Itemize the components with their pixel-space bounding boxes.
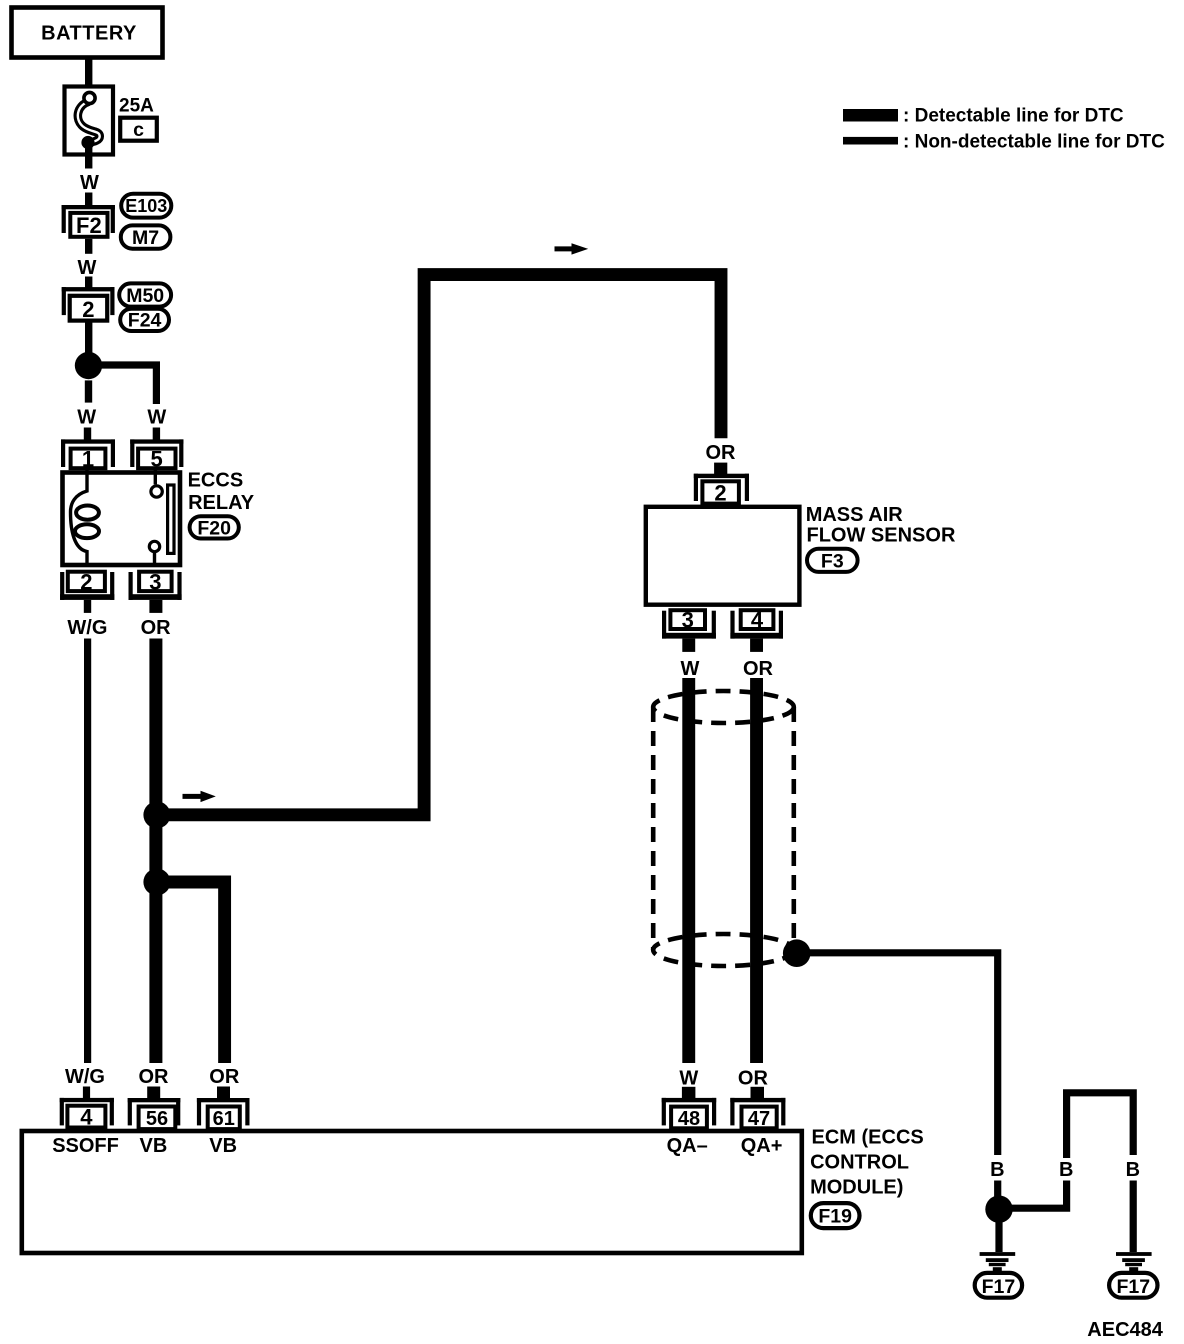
ECM pin 47 bbox=[730, 1098, 785, 1130]
battery B1 bbox=[12, 8, 163, 58]
svg-text:F3: F3 bbox=[821, 551, 844, 573]
ECM box bbox=[22, 1131, 802, 1253]
MAFS pin 4 bbox=[730, 608, 783, 639]
connector label M50 bbox=[119, 283, 171, 306]
svg-text:: Non-detectable line for DTC: : Non-detectable line for DTC bbox=[903, 132, 1165, 153]
svg-text:M50: M50 bbox=[126, 285, 164, 307]
svg-text:F2: F2 bbox=[76, 213, 102, 238]
svg-text:W: W bbox=[77, 407, 96, 429]
svg-text:W: W bbox=[80, 172, 99, 194]
wire middle B bridge over to right bbox=[1067, 1093, 1134, 1158]
svg-text:W: W bbox=[78, 257, 97, 279]
connector 2 bbox=[62, 287, 115, 322]
svg-text:W/G: W/G bbox=[65, 1066, 105, 1088]
wire stub to MAFS pin 2 thick bbox=[714, 463, 727, 475]
wire W to connector 2 bbox=[85, 277, 92, 289]
svg-text:OR: OR bbox=[743, 658, 774, 680]
wire B dot to middle branch bbox=[999, 1181, 1067, 1209]
ground F17 right bbox=[1109, 1252, 1157, 1298]
wire B dot down to ground bbox=[995, 1220, 1002, 1252]
svg-text:48: 48 bbox=[678, 1108, 700, 1130]
connector label E103 bbox=[121, 194, 171, 218]
svg-text:W: W bbox=[679, 1068, 698, 1090]
wire stub to pin 47 thick bbox=[751, 1087, 765, 1099]
fuse 25A bbox=[65, 87, 155, 155]
svg-text:B: B bbox=[1059, 1159, 1073, 1181]
relay pin 1 bbox=[61, 439, 115, 471]
wire W to relay pin 5 bbox=[153, 428, 160, 440]
wire shield to ground run bbox=[797, 953, 998, 1155]
connector F2 bbox=[62, 205, 115, 238]
wire thick OR branch to pin 61 bbox=[157, 882, 225, 1063]
ECM pin 61 bbox=[197, 1098, 250, 1130]
MAFS pin 2 bbox=[694, 474, 749, 506]
svg-text:25A: 25A bbox=[119, 96, 154, 117]
wire relay pin 2 stub bbox=[84, 600, 91, 613]
svg-text:3: 3 bbox=[682, 608, 694, 633]
connector label M7 bbox=[121, 225, 171, 249]
svg-text:OR: OR bbox=[141, 617, 172, 639]
svg-text:QA–: QA– bbox=[667, 1135, 708, 1157]
wire stub to pin 4 bbox=[83, 1087, 90, 1099]
svg-text:56: 56 bbox=[146, 1108, 168, 1130]
wire junction down bbox=[85, 380, 92, 402]
svg-text:F24: F24 bbox=[128, 310, 162, 332]
junction dot W bbox=[75, 352, 102, 379]
wire W to connector F2 bbox=[85, 193, 92, 207]
svg-text:QA+: QA+ bbox=[741, 1135, 783, 1157]
ECCS relay box bbox=[63, 473, 181, 566]
svg-text:W: W bbox=[147, 407, 166, 429]
junction dot OR 2 bbox=[143, 869, 170, 896]
MAFS label F3 bbox=[807, 549, 858, 573]
svg-text:VB: VB bbox=[209, 1135, 237, 1157]
mass air flow sensor box bbox=[646, 507, 800, 605]
ECM pin 4 bbox=[60, 1098, 114, 1130]
relay pin 3 bbox=[129, 570, 182, 600]
wire W to relay pin 1 bbox=[84, 428, 91, 440]
svg-text:CONTROL: CONTROL bbox=[810, 1152, 909, 1174]
shield cylinder dashed bbox=[653, 691, 794, 966]
svg-text:OR: OR bbox=[706, 442, 737, 464]
svg-text:F19: F19 bbox=[818, 1206, 852, 1228]
relay pin 5 bbox=[130, 439, 183, 471]
svg-text:OR: OR bbox=[139, 1066, 170, 1088]
svg-text:2: 2 bbox=[714, 481, 726, 506]
svg-text:VB: VB bbox=[140, 1135, 168, 1157]
wire stub to pin 61 thick bbox=[217, 1087, 230, 1099]
svg-text:4: 4 bbox=[80, 1105, 93, 1130]
svg-text:B: B bbox=[1126, 1159, 1140, 1181]
ECM pin 56 bbox=[128, 1098, 181, 1130]
relay pin 2 bbox=[60, 570, 114, 600]
wire stub to pin 48 thick bbox=[682, 1087, 696, 1099]
svg-text:1: 1 bbox=[82, 447, 94, 472]
arrow on top run bbox=[555, 243, 589, 254]
svg-text:2: 2 bbox=[82, 297, 94, 322]
svg-text:RELAY: RELAY bbox=[188, 492, 255, 514]
wire B to junction dot bbox=[994, 1181, 1001, 1209]
svg-text:BATTERY: BATTERY bbox=[41, 23, 137, 45]
arrow at junction 1 bbox=[183, 791, 216, 802]
svg-text:3: 3 bbox=[149, 570, 161, 595]
fuse block box c bbox=[120, 118, 157, 141]
svg-text:MODULE): MODULE) bbox=[810, 1176, 903, 1198]
relay label F20 bbox=[190, 516, 239, 539]
junction dot shield bbox=[783, 939, 811, 967]
junction dot OR 1 bbox=[143, 801, 170, 828]
wire right B down to ground bbox=[1130, 1181, 1137, 1253]
svg-text:F17: F17 bbox=[1116, 1276, 1150, 1298]
wire OR thick down bbox=[149, 639, 162, 1064]
svg-text:F17: F17 bbox=[982, 1276, 1016, 1298]
svg-text:W: W bbox=[681, 658, 700, 680]
svg-text:: Detectable line for DTC: : Detectable line for DTC bbox=[903, 106, 1124, 127]
svg-text:AEC484: AEC484 bbox=[1087, 1319, 1163, 1341]
wire junction to pin 5 branch bbox=[100, 365, 156, 404]
wire relay pin 3 stub thick bbox=[149, 600, 162, 613]
wire thick OR branch to MAFS bbox=[157, 275, 721, 815]
legend non-detectable line sample bbox=[843, 137, 898, 145]
svg-text:61: 61 bbox=[213, 1108, 235, 1130]
wire stub MAFS pin 4 thick bbox=[750, 639, 763, 652]
svg-text:E103: E103 bbox=[125, 196, 167, 216]
wire fuse to W label bbox=[85, 143, 92, 169]
svg-text:4: 4 bbox=[751, 608, 764, 633]
legend detectable line sample bbox=[843, 109, 898, 122]
svg-text:W/G: W/G bbox=[67, 617, 107, 639]
wire stub to pin 56 thick bbox=[147, 1087, 160, 1099]
svg-text:B: B bbox=[990, 1159, 1004, 1181]
svg-text:2: 2 bbox=[80, 570, 92, 595]
svg-text:5: 5 bbox=[150, 447, 162, 472]
relay switch bbox=[149, 470, 174, 567]
svg-text:OR: OR bbox=[209, 1066, 240, 1088]
svg-text:F20: F20 bbox=[197, 518, 231, 540]
svg-text:SSOFF: SSOFF bbox=[52, 1135, 119, 1157]
ECM label F19 bbox=[811, 1203, 860, 1228]
svg-text:M7: M7 bbox=[132, 227, 159, 249]
svg-text:ECM (ECCS: ECM (ECCS bbox=[812, 1127, 924, 1149]
svg-text:FLOW SENSOR: FLOW SENSOR bbox=[807, 525, 956, 547]
relay coil bbox=[71, 470, 100, 567]
ground F17 left bbox=[975, 1252, 1022, 1298]
svg-text:ECCS: ECCS bbox=[188, 470, 244, 492]
wire OR thick down to pin 47 bbox=[750, 678, 763, 1063]
connector label F24 bbox=[120, 309, 169, 332]
svg-text:MASS AIR: MASS AIR bbox=[806, 504, 904, 526]
wire F2 to W label bbox=[85, 239, 92, 254]
svg-text:c: c bbox=[133, 119, 144, 141]
MAFS pin 3 bbox=[662, 608, 716, 639]
wire stub MAFS pin 3 thick bbox=[682, 639, 695, 652]
ECM pin 48 bbox=[662, 1098, 717, 1130]
junction dot B bbox=[985, 1196, 1012, 1223]
svg-text:OR: OR bbox=[738, 1068, 769, 1090]
wire W thick down to pin 48 bbox=[682, 678, 695, 1063]
wire battery to fuse bbox=[85, 58, 92, 94]
wire connector 2 to junction bbox=[85, 321, 92, 353]
wire W/G long down bbox=[84, 639, 91, 1064]
svg-text:47: 47 bbox=[748, 1108, 770, 1130]
